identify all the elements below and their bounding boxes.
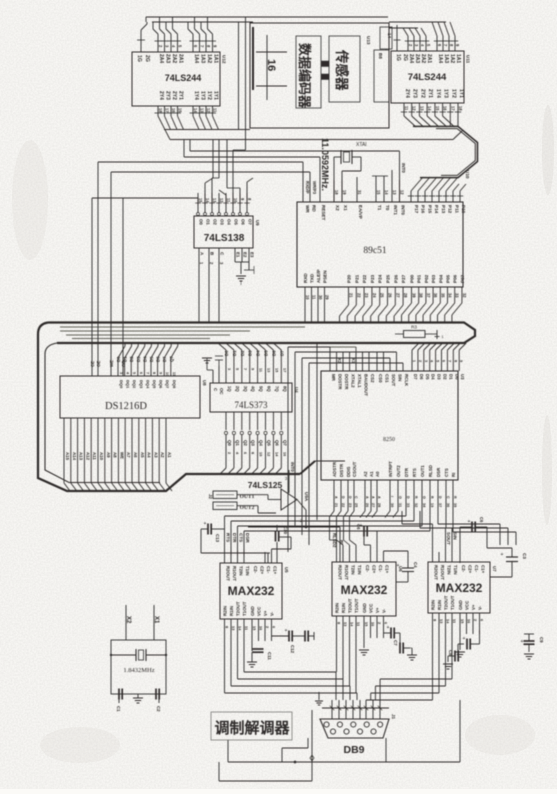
svg-text:15: 15	[435, 106, 440, 111]
svg-text:T1OUT: T1OUT	[450, 595, 455, 610]
wires DB9 to modem	[219, 700, 460, 781]
svg-text:数据编码器: 数据编码器	[297, 43, 312, 109]
svg-text:INT0: INT0	[290, 462, 295, 472]
89c51 port P2 pins fan to address bus	[340, 274, 409, 322]
svg-text:15: 15	[178, 108, 183, 113]
svg-text:SIN: SIN	[453, 532, 458, 540]
svg-text:2Y1: 2Y1	[178, 91, 184, 100]
svg-text:O: O	[398, 496, 402, 499]
svg-text:37: 37	[426, 293, 431, 298]
svg-text:WR: WR	[305, 205, 310, 213]
modem block 调制解调器	[211, 712, 292, 740]
svg-text:22: 22	[356, 293, 361, 298]
svg-text:D: D	[348, 496, 352, 499]
svg-text:1Y2: 1Y2	[206, 91, 212, 100]
svg-text:C1: C1	[116, 706, 121, 712]
svg-text:MAX232: MAX232	[341, 583, 388, 597]
svg-text:P24: P24	[378, 274, 383, 283]
svg-text:C: C	[354, 496, 358, 499]
svg-text:C12: C12	[290, 645, 295, 654]
svg-text:B8: B8	[378, 53, 383, 59]
load capacitors C1 C2 and ground for crystal	[116, 688, 161, 712]
svg-text:+: +	[285, 628, 288, 634]
svg-text:C10: C10	[283, 526, 288, 535]
svg-text:1Y2: 1Y2	[450, 89, 456, 98]
svg-text:D6: D6	[156, 356, 161, 362]
resistor R3 inside bus loop end	[395, 325, 444, 340]
svg-text:74LS125: 74LS125	[248, 480, 283, 490]
svg-text:18: 18	[158, 108, 163, 113]
svg-text:1A2: 1A2	[206, 54, 212, 63]
wire horizontals from left side to 74LS138 and 89c51 WR RD RESET	[92, 140, 320, 206]
svg-text:74LS244: 74LS244	[408, 72, 447, 83]
svg-text:6: 6	[139, 372, 143, 374]
svg-text:RLSD2: RLSD2	[332, 533, 337, 548]
svg-text:T2IN: T2IN	[239, 566, 244, 576]
svg-text:2Y1: 2Y1	[427, 89, 433, 98]
svg-text:P22: P22	[362, 274, 367, 283]
svg-text:39: 39	[453, 503, 457, 507]
svg-text:D5: D5	[149, 356, 154, 362]
svg-text:T1OUT: T1OUT	[242, 601, 247, 616]
svg-text:O2: O2	[213, 219, 218, 225]
svg-text:11: 11	[213, 108, 218, 113]
bus width marker 16	[256, 35, 287, 100]
svg-text:14: 14	[193, 108, 198, 113]
svg-text:DSR: DSR	[245, 533, 250, 543]
svg-text:DOSTR: DOSTR	[344, 374, 349, 390]
svg-text:A3: A3	[153, 452, 158, 458]
svg-text:D0: D0	[224, 350, 229, 356]
89c51 bottom left pins RXD TXD ALE PSEN	[303, 269, 330, 322]
svg-text:D: D	[406, 496, 410, 499]
capacitor C4 right of U6 top	[384, 551, 419, 582]
svg-text:E3: E3	[250, 252, 255, 258]
svg-text:P12: P12	[448, 205, 453, 214]
svg-text:33: 33	[406, 503, 410, 507]
svg-text:A2: A2	[160, 452, 165, 458]
svg-text:A2: A2	[363, 471, 368, 477]
svg-text:U9: U9	[255, 220, 260, 226]
capacitor C8 under U7	[443, 630, 480, 669]
svg-text:A6: A6	[133, 452, 138, 458]
svg-text:10: 10	[259, 452, 263, 456]
svg-text:1A1: 1A1	[213, 54, 219, 63]
svg-text:X1: X1	[351, 358, 356, 364]
IC U? 74LS138 decoder body	[194, 216, 260, 248]
svg-text:5: 5	[436, 360, 440, 362]
sensor block 传感器	[329, 36, 360, 102]
svg-text:D1: D1	[123, 356, 128, 362]
svg-text:C1+: C1+	[385, 565, 390, 574]
svg-text:A13: A13	[79, 452, 84, 461]
svg-text:39: 39	[412, 293, 417, 298]
svg-text:D: D	[341, 496, 345, 499]
svg-text:5: 5	[235, 368, 239, 370]
wire bus from U12 bottom pins	[155, 17, 463, 150]
svg-text:Q7: Q7	[169, 356, 174, 362]
svg-text:2A1: 2A1	[426, 54, 432, 63]
svg-text:R: R	[430, 496, 434, 499]
svg-text:V-: V-	[270, 611, 275, 616]
svg-text:74LS373: 74LS373	[234, 400, 268, 410]
svg-text:89c51: 89c51	[363, 246, 386, 256]
svg-text:Q5: Q5	[267, 440, 272, 446]
svg-text:2Y3: 2Y3	[412, 89, 418, 98]
capacitor C7 under U6	[384, 625, 418, 660]
svg-text:16: 16	[282, 452, 286, 456]
IC U4 74LS373 latch body	[210, 383, 299, 412]
svg-text:1A4: 1A4	[193, 54, 199, 63]
svg-text:MAX232: MAX232	[436, 581, 483, 595]
svg-text:2Q: 2Q	[235, 386, 240, 392]
svg-text:C6: C6	[356, 524, 361, 530]
svg-text:28: 28	[377, 503, 381, 507]
svg-text:DQ7: DQ7	[165, 380, 170, 389]
svg-text:16: 16	[171, 108, 176, 113]
svg-text:R2IN: R2IN	[431, 600, 436, 610]
svg-text:33: 33	[455, 293, 460, 298]
svg-text:1G: 1G	[136, 55, 142, 62]
svg-text:J1: J1	[391, 714, 396, 720]
svg-text:GND: GND	[458, 600, 463, 610]
svg-text:5: 5	[132, 372, 136, 374]
svg-text:C1-: C1-	[266, 566, 271, 574]
svg-text:11: 11	[312, 295, 317, 300]
svg-text:R1OUT: R1OUT	[440, 565, 445, 580]
svg-text:10: 10	[305, 295, 310, 300]
svg-text:O5: O5	[234, 219, 239, 225]
svg-text:1Y3: 1Y3	[200, 91, 206, 100]
svg-text:GND: GND	[250, 606, 255, 616]
svg-text:12: 12	[219, 198, 224, 203]
capacitor C11 under U5 GND pin	[247, 641, 272, 667]
svg-text:10: 10	[233, 198, 238, 203]
svg-text:2A1: 2A1	[178, 54, 184, 63]
svg-text:WR/P3: WR/P3	[312, 181, 317, 195]
svg-text:13: 13	[212, 198, 217, 203]
svg-text:35: 35	[440, 293, 445, 298]
wire bus from U11 top pins into sensor block	[389, 22, 460, 51]
svg-text:P21: P21	[354, 274, 359, 283]
crystal Y1 1.8432MHz circuit for 8250	[110, 605, 167, 694]
svg-text:17: 17	[165, 108, 170, 113]
svg-text:21: 21	[349, 293, 354, 298]
svg-text:23: 23	[348, 503, 352, 507]
IC U5 MAX232 body	[220, 563, 289, 619]
connector OUT2	[208, 494, 255, 511]
svg-text:OUT2: OUT2	[396, 465, 401, 477]
svg-text:2Y3: 2Y3	[165, 91, 171, 100]
svg-text:XTAL1: XTAL1	[357, 374, 362, 388]
svg-text:17: 17	[450, 106, 455, 111]
svg-text:25: 25	[354, 503, 358, 507]
svg-text:D: D	[438, 496, 442, 499]
ground near DB9	[315, 692, 323, 708]
svg-text:O4: O4	[227, 219, 232, 225]
svg-text:RXD: RXD	[303, 273, 308, 283]
capacitor C13 network left of U5	[201, 521, 225, 553]
svg-text:SIN: SIN	[398, 374, 403, 381]
svg-text:19: 19	[342, 190, 347, 195]
svg-text:P10: P10	[461, 205, 466, 214]
svg-text:9: 9	[251, 368, 255, 370]
svg-text:19: 19	[430, 503, 434, 507]
svg-text:23: 23	[364, 293, 369, 298]
U7 top wires with net labels SOUT SIN	[402, 511, 458, 562]
svg-text:+: +	[397, 563, 400, 569]
svg-text:CS2: CS2	[370, 374, 375, 383]
svg-text:+: +	[468, 519, 471, 525]
svg-text:1G: 1G	[395, 54, 401, 61]
svg-text:31: 31	[357, 190, 362, 195]
svg-text:T1IN: T1IN	[453, 565, 458, 575]
svg-text:A11: A11	[92, 452, 97, 460]
svg-text:Q4: Q4	[259, 440, 264, 446]
svg-text:U7: U7	[492, 566, 497, 572]
svg-text:V+: V+	[471, 604, 476, 610]
svg-text:DQ5: DQ5	[152, 380, 157, 389]
ground under U7 GND pin	[455, 634, 465, 657]
svg-text:17: 17	[282, 368, 286, 372]
svg-text:15: 15	[198, 198, 203, 203]
svg-text:9: 9	[159, 372, 163, 374]
svg-text:11: 11	[259, 368, 263, 372]
svg-text:O7: O7	[248, 219, 253, 225]
svg-text:C1-: C1-	[378, 565, 383, 573]
svg-text:A7: A7	[126, 452, 131, 458]
svg-text:2Y4: 2Y4	[158, 91, 164, 100]
svg-text:A1: A1	[167, 452, 172, 458]
svg-text:3: 3	[424, 360, 428, 362]
svg-text:A: A	[365, 496, 369, 499]
svg-text:U5: U5	[284, 567, 289, 573]
svg-text:24: 24	[372, 293, 377, 298]
svg-text:C1+: C1+	[273, 566, 278, 575]
svg-text:O3: O3	[220, 219, 225, 225]
svg-text:3: 3	[227, 368, 231, 370]
svg-text:2G: 2G	[402, 54, 408, 61]
svg-text:U12: U12	[222, 55, 227, 64]
svg-text:P15: P15	[427, 205, 432, 214]
wire ribbon U-turn from U11 bottom to 89c51 P1 port	[401, 103, 478, 202]
svg-text:16: 16	[443, 106, 448, 111]
svg-text:OUT1: OUT1	[420, 465, 425, 477]
svg-text:P02: P02	[424, 274, 429, 283]
svg-text:R3: R3	[411, 325, 417, 330]
sensor block outer box	[250, 23, 389, 128]
svg-text:P23: P23	[370, 274, 375, 283]
svg-text:P17: P17	[414, 205, 419, 214]
svg-text:J2: J2	[208, 494, 213, 499]
capacitor C12 under U5	[272, 628, 315, 654]
svg-text:14: 14	[427, 106, 432, 111]
svg-text:11: 11	[226, 198, 231, 203]
svg-text:12: 12	[267, 452, 271, 456]
svg-text:Q3: Q3	[251, 440, 256, 446]
svg-text:T1IN: T1IN	[357, 565, 362, 575]
svg-text:6: 6	[243, 452, 247, 454]
svg-text:ALE/P: ALE/P	[316, 269, 321, 283]
svg-text:1A4: 1A4	[437, 54, 443, 63]
svg-text:CTS: CTS	[239, 533, 244, 542]
capacitor C9 and ground far right bottom	[521, 634, 544, 659]
svg-text:2Y2: 2Y2	[171, 91, 177, 100]
svg-text:Q6: Q6	[274, 440, 279, 446]
IC 74LS125 buffer U9A triangle	[248, 462, 309, 510]
svg-text:P26: P26	[393, 274, 398, 283]
svg-text:DQ6: DQ6	[159, 380, 164, 389]
svg-text:RD: RD	[312, 205, 317, 212]
svg-text:1.8432MHz: 1.8432MHz	[123, 667, 154, 674]
connector OUT1	[213, 491, 255, 500]
svg-text:T2OUT: T2OUT	[444, 595, 449, 610]
svg-text:R: R	[414, 496, 418, 499]
svg-text:DOSTR: DOSTR	[338, 374, 343, 390]
svg-text:D7: D7	[413, 374, 418, 380]
svg-text:A10: A10	[99, 452, 104, 461]
svg-text:D4: D4	[142, 356, 147, 362]
svg-text:TXD: TXD	[310, 273, 315, 283]
svg-text:A9: A9	[106, 452, 111, 458]
svg-text:26: 26	[365, 503, 369, 507]
svg-text:RTS: RTS	[226, 533, 231, 542]
svg-text:T1IN: T1IN	[245, 566, 250, 576]
svg-text:6: 6	[442, 360, 446, 362]
svg-text:U13: U13	[366, 36, 371, 45]
DS1216D data pins to bus	[116, 343, 178, 389]
IC U11 74LS244 buffer body	[391, 51, 471, 103]
svg-text:1Y4: 1Y4	[435, 89, 441, 98]
svg-text:8Q: 8Q	[282, 386, 287, 392]
svg-text:P27: P27	[401, 274, 406, 283]
svg-text:16: 16	[265, 59, 277, 71]
svg-text:T0: T0	[385, 205, 390, 211]
8250 bottom pin stubs	[334, 480, 457, 511]
svg-text:C2+: C2+	[372, 565, 377, 574]
svg-text:12: 12	[206, 108, 211, 113]
svg-text:ADSTR: ADSTR	[332, 461, 337, 477]
svg-text:C11: C11	[267, 652, 272, 660]
data encoder block 数据编码器	[296, 36, 321, 109]
svg-text:V-: V-	[382, 608, 387, 613]
DS1216D chip-enable pins to top	[90, 162, 126, 376]
svg-text:R1IN: R1IN	[437, 600, 442, 610]
svg-text:R2OUT: R2OUT	[338, 565, 343, 580]
svg-text:8: 8	[453, 360, 457, 362]
svg-text:A8: A8	[113, 452, 118, 458]
svg-text:OC: OC	[219, 388, 224, 395]
svg-text:13: 13	[200, 108, 205, 113]
svg-text:C7: C7	[393, 640, 398, 646]
svg-text:31: 31	[398, 503, 402, 507]
svg-text:DQ4: DQ4	[145, 380, 150, 389]
connector J1 DB9	[320, 714, 396, 756]
svg-text:1Q: 1Q	[227, 386, 232, 392]
svg-text:1: 1	[412, 360, 416, 362]
svg-text:D3: D3	[437, 374, 442, 380]
svg-text:P01: P01	[417, 274, 422, 283]
svg-text:2A3: 2A3	[165, 54, 171, 63]
IC U7 MAX232 body	[428, 562, 497, 613]
svg-text:DTR: DTR	[404, 467, 409, 477]
svg-text:32: 32	[462, 293, 467, 298]
svg-text:38: 38	[419, 293, 424, 298]
svg-text:2Y4: 2Y4	[404, 89, 410, 98]
svg-text:T2IN: T2IN	[447, 565, 452, 575]
svg-text:E1: E1	[236, 252, 241, 258]
svg-text:DISTR: DISTR	[339, 463, 344, 477]
svg-text:D4: D4	[431, 374, 436, 380]
svg-text:U8: U8	[202, 380, 207, 386]
capacitor C6 above U6	[356, 523, 377, 562]
74LS138 enable pins E1 E2 E3 with ground	[235, 248, 255, 285]
svg-text:11: 11	[404, 106, 409, 111]
svg-text:U10: U10	[465, 170, 470, 179]
svg-text:OE: OE	[96, 361, 101, 367]
svg-text:21: 21	[334, 503, 338, 507]
svg-text:A12: A12	[85, 452, 90, 461]
svg-text:V+: V+	[375, 607, 380, 613]
svg-text:27: 27	[395, 293, 400, 298]
svg-text:U11: U11	[466, 55, 471, 64]
svg-text:P11: P11	[454, 205, 459, 213]
svg-text:1Y3: 1Y3	[443, 89, 449, 98]
svg-text:22: 22	[341, 503, 345, 507]
svg-text:P14: P14	[434, 205, 439, 214]
svg-text:DQ3: DQ3	[139, 380, 144, 389]
svg-text:Q2: Q2	[243, 440, 248, 446]
svg-text:27: 27	[371, 503, 375, 507]
svg-text:RESET: RESET	[321, 205, 326, 221]
svg-text:C6: C6	[479, 517, 484, 523]
svg-text:P25: P25	[386, 274, 391, 283]
svg-text:Q1: Q1	[235, 440, 240, 446]
svg-text:Q0: Q0	[227, 440, 232, 446]
svg-text:2A2: 2A2	[171, 54, 177, 63]
svg-text:C2-: C2-	[253, 566, 258, 574]
svg-text:D2: D2	[129, 356, 134, 362]
vertical link wires right of U12	[238, 22, 240, 130]
svg-text:WE: WE	[119, 452, 124, 459]
svg-text:PSEN: PSEN	[323, 270, 328, 283]
svg-text:30: 30	[318, 295, 323, 300]
svg-text:D3: D3	[136, 356, 141, 362]
svg-text:D6: D6	[419, 374, 424, 380]
svg-text:RXD/P: RXD/P	[305, 181, 310, 194]
svg-text:RTS: RTS	[412, 468, 417, 477]
svg-text:X2: X2	[337, 358, 342, 364]
svg-text:RLSD: RLSD	[428, 465, 433, 477]
svg-text:X2: X2	[335, 205, 340, 211]
svg-text:A14: A14	[72, 452, 77, 461]
small box 14 at top right of sensor block	[380, 27, 392, 50]
svg-text:74LS138: 74LS138	[204, 233, 245, 244]
svg-text:R2OUT: R2OUT	[226, 566, 231, 581]
svg-text:CTS: CTS	[444, 468, 449, 477]
svg-text:12: 12	[412, 106, 417, 111]
svg-text:2A4: 2A4	[408, 54, 414, 63]
svg-text:1Y1: 1Y1	[458, 89, 464, 98]
crystal X(A) 11.0592MHz for 89c51	[320, 138, 366, 202]
svg-text:P03: P03	[431, 274, 436, 283]
svg-text:C2-: C2-	[365, 565, 370, 573]
svg-text:Q7: Q7	[282, 440, 287, 446]
svg-text:O: O	[422, 496, 426, 499]
svg-text:1A3: 1A3	[200, 54, 206, 63]
svg-text:8250: 8250	[383, 437, 395, 443]
svg-text:U3: U3	[460, 374, 465, 380]
